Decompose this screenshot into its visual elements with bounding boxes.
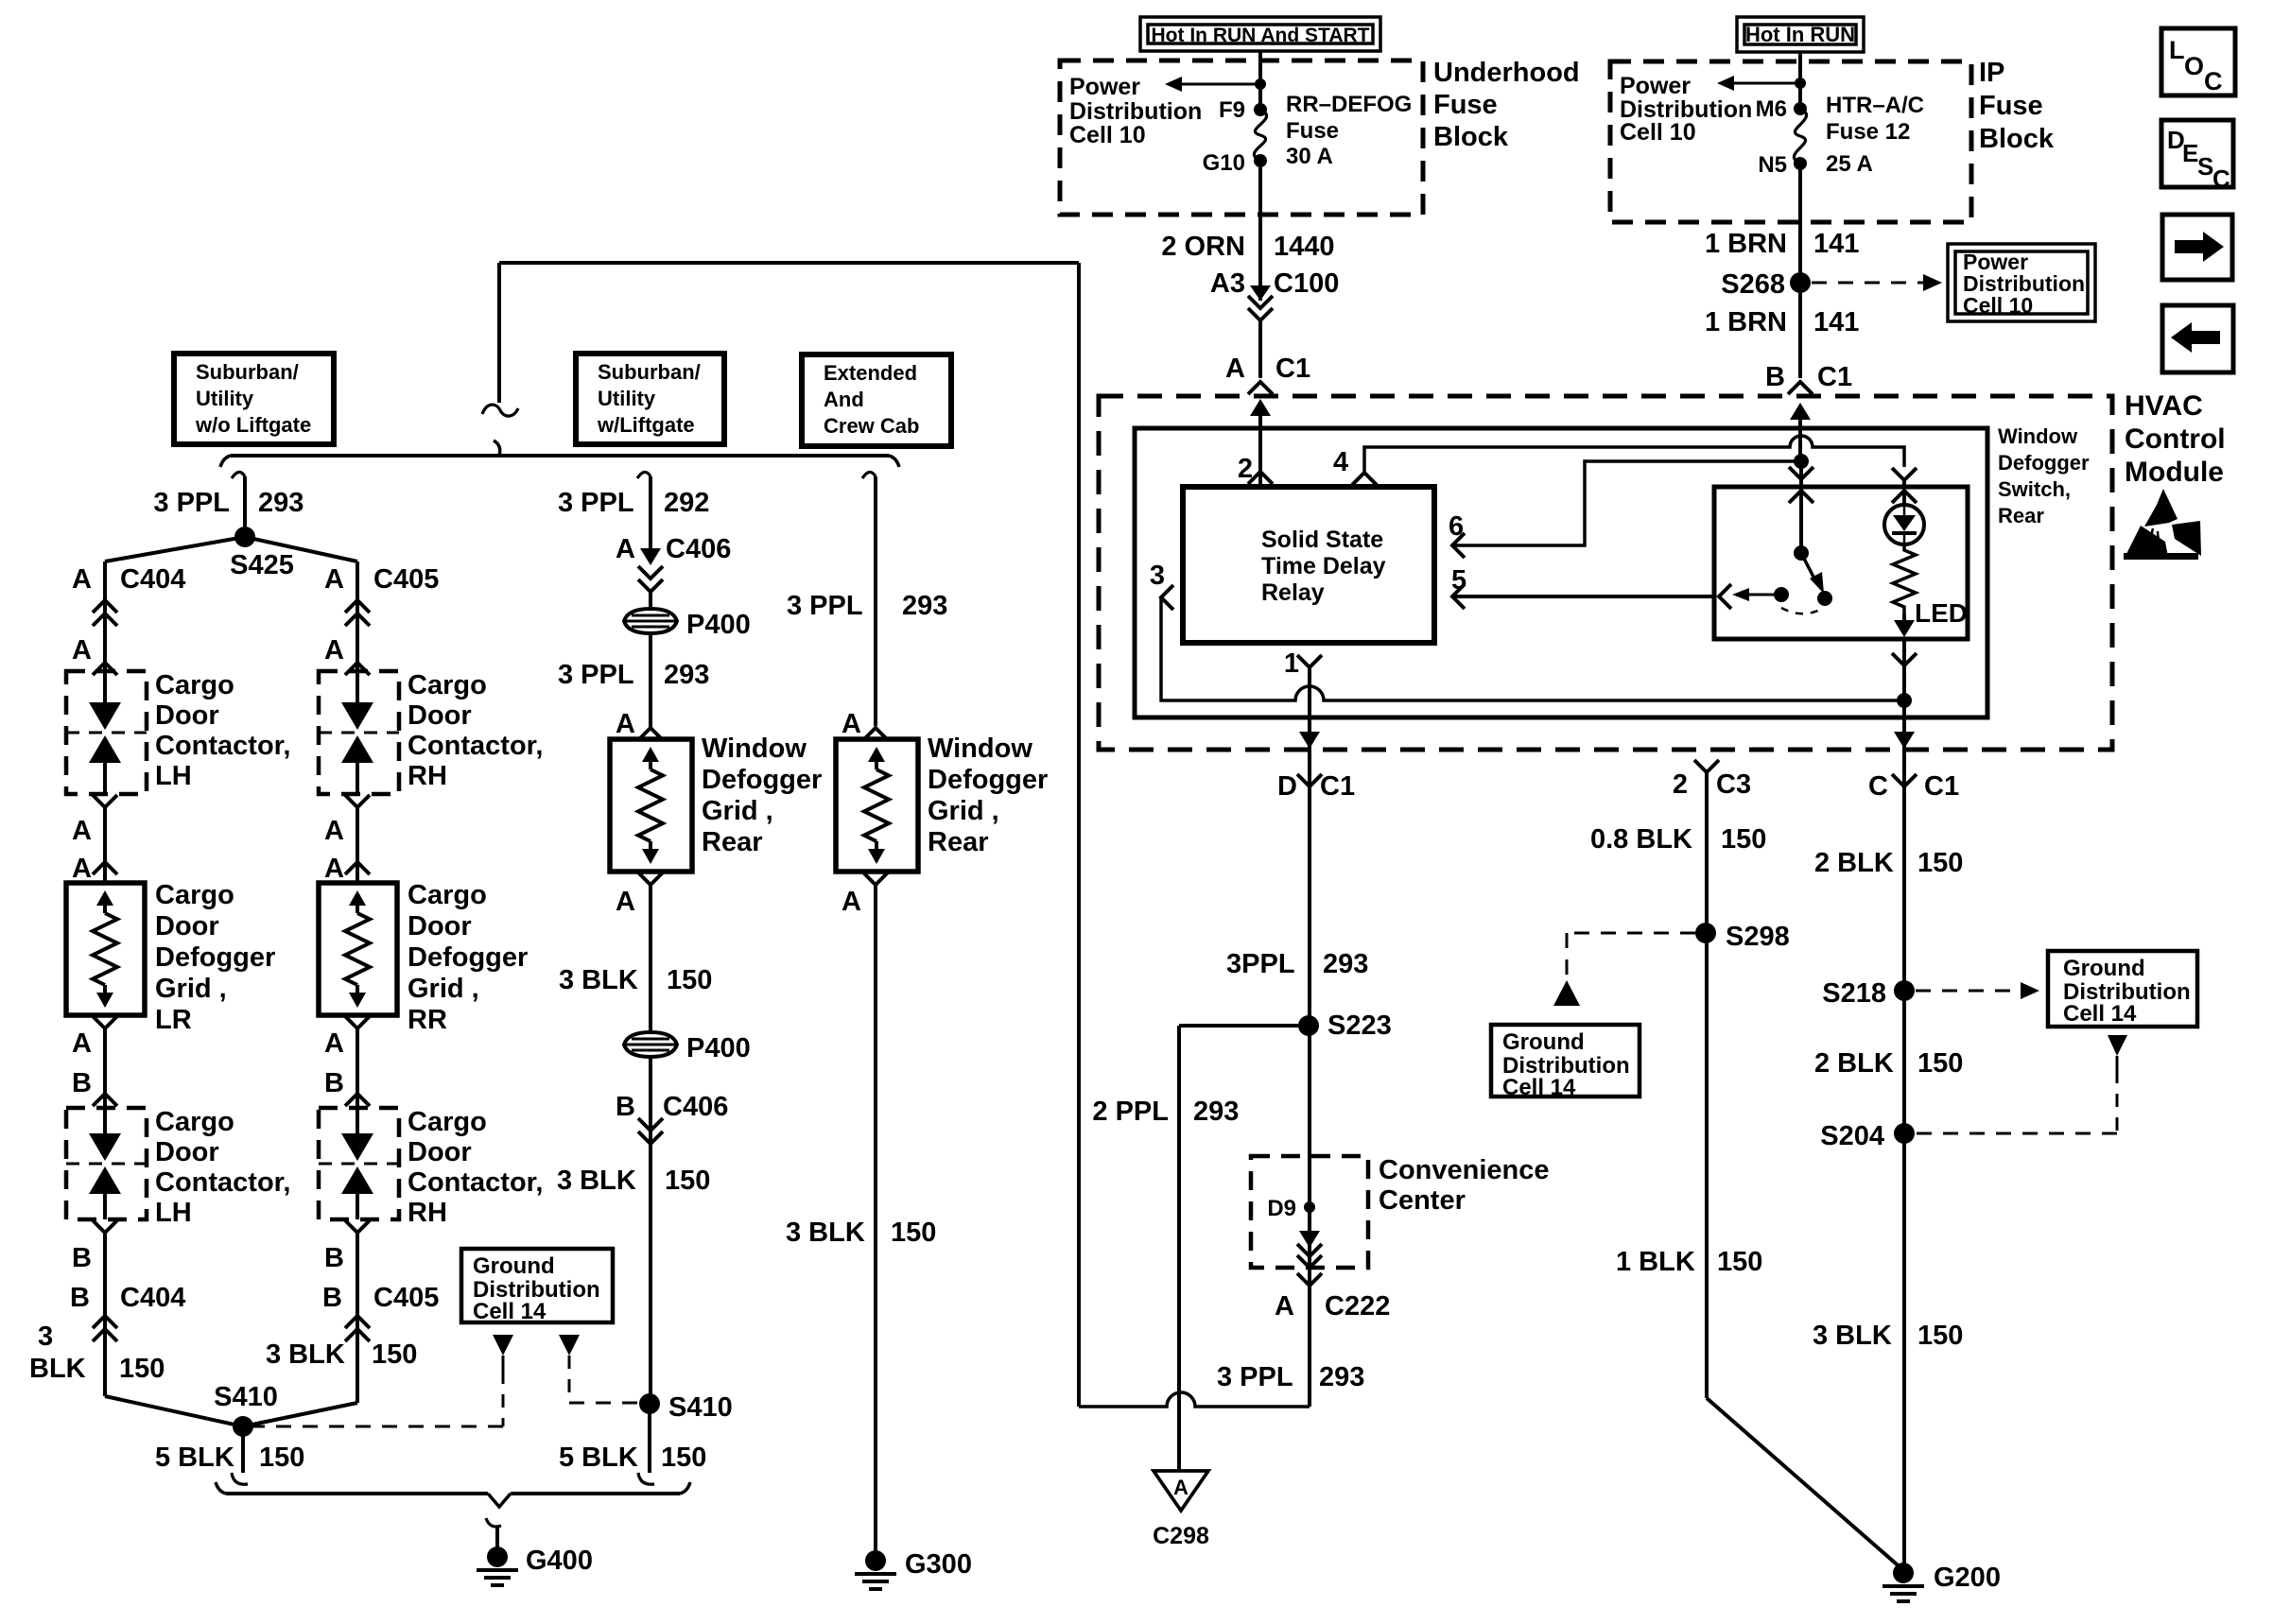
svg-text:E: E — [2182, 139, 2198, 167]
svg-text:A: A — [72, 854, 92, 884]
svg-text:Solid State: Solid State — [1261, 527, 1383, 553]
svg-text:RH: RH — [408, 1198, 447, 1228]
svg-text:A: A — [72, 1028, 92, 1059]
svg-text:A: A — [324, 1028, 344, 1059]
svg-text:Rear: Rear — [1998, 504, 2044, 527]
svg-text:3: 3 — [38, 1322, 53, 1352]
svg-text:3 BLK: 3 BLK — [559, 965, 638, 995]
svg-text:3 PPL: 3 PPL — [153, 488, 230, 518]
svg-text:Time Delay: Time Delay — [1261, 553, 1386, 579]
svg-text:C: C — [2204, 67, 2223, 95]
svg-text:150: 150 — [891, 1218, 936, 1248]
svg-text:C3: C3 — [1716, 769, 1751, 800]
svg-text:Defogger: Defogger — [408, 942, 528, 973]
svg-text:B: B — [1765, 362, 1785, 392]
svg-text:B: B — [72, 1243, 92, 1273]
svg-text:Window: Window — [928, 734, 1032, 764]
svg-text:Fuse: Fuse — [1286, 118, 1339, 144]
svg-text:C406: C406 — [666, 534, 731, 564]
svg-text:1440: 1440 — [1274, 232, 1335, 262]
svg-text:2 PPL: 2 PPL — [1092, 1097, 1169, 1127]
svg-text:G200: G200 — [1934, 1563, 2001, 1593]
svg-text:Power: Power — [1620, 73, 1691, 99]
svg-text:Cargo: Cargo — [408, 670, 487, 700]
svg-text:293: 293 — [1319, 1362, 1364, 1392]
svg-text:C405: C405 — [373, 1283, 439, 1313]
svg-text:P400: P400 — [686, 1033, 751, 1063]
svg-text:B: B — [322, 1283, 342, 1313]
svg-text:4: 4 — [1333, 447, 1348, 477]
svg-text:Extended: Extended — [824, 361, 917, 385]
svg-text:Hot In RUN: Hot In RUN — [1745, 23, 1855, 46]
svg-text:Power: Power — [1069, 74, 1140, 100]
svg-text:RH: RH — [408, 761, 447, 791]
svg-text:Window: Window — [1998, 424, 2078, 448]
svg-text:Door: Door — [408, 700, 472, 731]
svg-text:2: 2 — [1673, 769, 1688, 800]
svg-text:2 BLK: 2 BLK — [1814, 1048, 1894, 1079]
svg-text:Cargo: Cargo — [408, 1107, 487, 1137]
svg-text:5 BLK: 5 BLK — [155, 1443, 234, 1473]
svg-text:S218: S218 — [1822, 978, 1886, 1009]
svg-text:Underhood: Underhood — [1433, 58, 1580, 88]
svg-text:2 ORN: 2 ORN — [1161, 232, 1245, 262]
svg-text:3 PPL: 3 PPL — [1217, 1362, 1293, 1392]
svg-text:C100: C100 — [1274, 268, 1339, 299]
svg-text:Rear: Rear — [702, 827, 763, 857]
svg-text:C: C — [2212, 164, 2230, 193]
svg-text:LED: LED — [1915, 598, 1968, 628]
svg-text:LH: LH — [155, 761, 192, 791]
svg-text:C1: C1 — [1275, 354, 1310, 384]
svg-text:HTR–A/C: HTR–A/C — [1826, 93, 1924, 118]
svg-text:RR: RR — [408, 1005, 447, 1035]
svg-text:A: A — [324, 854, 344, 884]
svg-text:Defogger: Defogger — [928, 765, 1048, 795]
svg-text:S410: S410 — [214, 1382, 278, 1412]
svg-text:LR: LR — [155, 1005, 192, 1035]
svg-text:A: A — [842, 709, 861, 739]
svg-text:A: A — [72, 564, 92, 595]
svg-text:HVAC: HVAC — [2125, 390, 2203, 422]
svg-text:293: 293 — [902, 591, 947, 621]
svg-text:A: A — [324, 564, 344, 595]
svg-text:Contactor,: Contactor, — [155, 731, 290, 761]
svg-text:Defogger: Defogger — [155, 942, 275, 973]
svg-text:S204: S204 — [1820, 1121, 1884, 1151]
svg-text:LH: LH — [155, 1198, 192, 1228]
svg-text:3: 3 — [1150, 561, 1165, 591]
svg-text:w/o Liftgate: w/o Liftgate — [195, 413, 311, 437]
svg-text:C1: C1 — [1924, 771, 1959, 802]
svg-text:w/Liftgate: w/Liftgate — [597, 413, 695, 437]
svg-text:3 BLK: 3 BLK — [557, 1166, 636, 1196]
svg-text:RR–DEFOG: RR–DEFOG — [1286, 92, 1412, 117]
svg-text:Cell 14: Cell 14 — [1502, 1075, 1576, 1100]
svg-text:A: A — [1225, 354, 1245, 384]
svg-text:G400: G400 — [526, 1546, 593, 1576]
svg-text:Cell 10: Cell 10 — [1069, 122, 1146, 148]
svg-text:A: A — [324, 816, 344, 846]
svg-text:3 BLK: 3 BLK — [266, 1339, 345, 1370]
svg-text:C405: C405 — [373, 564, 439, 595]
svg-text:150: 150 — [1917, 1048, 1963, 1079]
svg-text:3 PPL: 3 PPL — [558, 488, 634, 518]
svg-text:Grid ,: Grid , — [408, 974, 479, 1004]
svg-text:S223: S223 — [1327, 1011, 1392, 1041]
svg-text:Grid ,: Grid , — [928, 796, 999, 826]
svg-text:Fuse: Fuse — [1979, 91, 2043, 121]
svg-text:Block: Block — [1433, 122, 1509, 152]
svg-text:S298: S298 — [1726, 922, 1790, 952]
svg-text:Ground: Ground — [2063, 956, 2145, 981]
svg-text:0.8 BLK: 0.8 BLK — [1590, 824, 1692, 855]
svg-text:5 BLK: 5 BLK — [559, 1443, 638, 1473]
svg-text:Crew Cab: Crew Cab — [824, 414, 919, 438]
svg-text:B: B — [324, 1068, 344, 1098]
svg-text:A: A — [324, 635, 344, 665]
svg-text:150: 150 — [667, 965, 712, 995]
svg-text:M6: M6 — [1756, 96, 1787, 122]
svg-text:150: 150 — [1917, 848, 1963, 878]
svg-text:A: A — [616, 887, 635, 917]
svg-text:Cell 10: Cell 10 — [1620, 119, 1696, 146]
svg-text:Module: Module — [2125, 457, 2224, 488]
svg-text:S410: S410 — [668, 1392, 733, 1423]
svg-text:3 PPL: 3 PPL — [787, 591, 863, 621]
svg-text:Switch,: Switch, — [1998, 477, 2071, 501]
svg-text:C404: C404 — [120, 1283, 185, 1313]
svg-text:B: B — [72, 1068, 92, 1098]
svg-text:Grid ,: Grid , — [155, 974, 227, 1004]
svg-text:G300: G300 — [905, 1549, 972, 1580]
svg-text:A: A — [72, 816, 92, 846]
svg-text:C298: C298 — [1153, 1523, 1209, 1549]
svg-text:And: And — [824, 388, 864, 411]
svg-text:A: A — [842, 887, 861, 917]
svg-text:Block: Block — [1979, 124, 2055, 154]
svg-text:A: A — [616, 534, 635, 564]
svg-text:C1: C1 — [1817, 362, 1852, 392]
svg-text:150: 150 — [1721, 824, 1766, 855]
svg-text:Ground: Ground — [1502, 1029, 1585, 1055]
svg-text:293: 293 — [1323, 949, 1368, 979]
svg-text:Rear: Rear — [928, 827, 989, 857]
svg-text:Cell 14: Cell 14 — [2063, 1001, 2137, 1027]
svg-text:Cargo: Cargo — [155, 1107, 234, 1137]
svg-text:150: 150 — [665, 1166, 710, 1196]
svg-text:141: 141 — [1813, 229, 1859, 259]
svg-text:Suburban/: Suburban/ — [196, 360, 299, 384]
svg-text:A: A — [616, 709, 635, 739]
svg-text:S425: S425 — [230, 550, 294, 580]
svg-text:B: B — [616, 1092, 635, 1122]
svg-text:Door: Door — [408, 1137, 472, 1167]
svg-text:Utility: Utility — [196, 387, 254, 410]
svg-text:Contactor,: Contactor, — [155, 1167, 290, 1198]
svg-text:A: A — [1275, 1291, 1294, 1322]
svg-text:150: 150 — [1917, 1321, 1963, 1351]
svg-text:Fuse: Fuse — [1433, 90, 1498, 120]
svg-text:3PPL: 3PPL — [1226, 949, 1295, 979]
svg-text:141: 141 — [1813, 307, 1859, 337]
svg-text:Convenience: Convenience — [1379, 1155, 1550, 1185]
svg-text:293: 293 — [664, 660, 709, 690]
svg-text:150: 150 — [1717, 1247, 1762, 1277]
svg-text:C404: C404 — [120, 564, 185, 595]
svg-text:1 BRN: 1 BRN — [1705, 307, 1787, 337]
svg-text:Contactor,: Contactor, — [408, 731, 543, 761]
svg-text:292: 292 — [664, 488, 709, 518]
svg-text:G10: G10 — [1203, 150, 1245, 176]
svg-text:1 BLK: 1 BLK — [1616, 1247, 1695, 1277]
svg-text:Grid ,: Grid , — [702, 796, 773, 826]
svg-text:3 BLK: 3 BLK — [786, 1218, 865, 1248]
svg-text:B: B — [324, 1243, 344, 1273]
svg-text:N5: N5 — [1758, 152, 1787, 178]
svg-text:C222: C222 — [1325, 1291, 1390, 1322]
svg-text:150: 150 — [119, 1354, 165, 1384]
svg-text:Cargo: Cargo — [155, 880, 234, 910]
svg-text:BLK: BLK — [29, 1354, 86, 1384]
svg-text:Control: Control — [2125, 423, 2226, 455]
svg-text:O: O — [2184, 52, 2204, 80]
svg-text:Cell 10: Cell 10 — [1963, 293, 2033, 318]
svg-text:L: L — [2169, 36, 2185, 64]
svg-text:Defogger: Defogger — [702, 765, 822, 795]
svg-text:1: 1 — [1284, 648, 1299, 679]
svg-text:A: A — [72, 635, 92, 665]
svg-text:2 BLK: 2 BLK — [1814, 848, 1894, 878]
svg-text:Utility: Utility — [598, 387, 656, 410]
svg-text:Center: Center — [1379, 1185, 1466, 1216]
svg-text:D: D — [1277, 771, 1297, 802]
svg-text:150: 150 — [661, 1443, 706, 1473]
svg-text:P400: P400 — [686, 610, 751, 640]
svg-text:A: A — [1173, 1476, 1189, 1499]
svg-text:293: 293 — [1193, 1097, 1239, 1127]
svg-text:Ground: Ground — [473, 1253, 555, 1279]
svg-text:S268: S268 — [1721, 269, 1785, 300]
svg-text:C: C — [1868, 771, 1888, 802]
svg-text:Door: Door — [155, 911, 219, 942]
svg-text:30 A: 30 A — [1286, 144, 1333, 169]
svg-text:Door: Door — [155, 700, 219, 731]
svg-text:293: 293 — [258, 488, 304, 518]
svg-text:C406: C406 — [663, 1092, 728, 1122]
svg-text:Cargo: Cargo — [408, 880, 487, 910]
svg-text:25 A: 25 A — [1826, 151, 1873, 177]
svg-text:Window: Window — [702, 734, 807, 764]
svg-text:Defogger: Defogger — [1998, 451, 2090, 475]
svg-text:C1: C1 — [1320, 771, 1355, 802]
svg-text:Relay: Relay — [1261, 579, 1325, 606]
svg-text:Suburban/: Suburban/ — [598, 360, 701, 384]
svg-text:D9: D9 — [1267, 1196, 1296, 1221]
svg-text:Cargo: Cargo — [155, 670, 234, 700]
svg-text:3 PPL: 3 PPL — [558, 660, 634, 690]
svg-text:F9: F9 — [1219, 97, 1245, 123]
svg-text:Fuse 12: Fuse 12 — [1826, 119, 1910, 145]
svg-text:Hot In RUN And START: Hot In RUN And START — [1152, 25, 1370, 46]
svg-text:B: B — [70, 1283, 90, 1313]
svg-text:Cell 14: Cell 14 — [473, 1299, 547, 1324]
svg-text:3 BLK: 3 BLK — [1813, 1321, 1892, 1351]
svg-text:150: 150 — [259, 1443, 304, 1473]
svg-text:IP: IP — [1979, 58, 2004, 88]
svg-text:1 BRN: 1 BRN — [1705, 229, 1787, 259]
svg-text:A3: A3 — [1210, 268, 1245, 299]
svg-text:Distribution: Distribution — [1069, 98, 1202, 125]
svg-text:S: S — [2197, 152, 2213, 181]
svg-text:Door: Door — [155, 1137, 219, 1167]
svg-text:150: 150 — [372, 1339, 417, 1370]
svg-text:Contactor,: Contactor, — [408, 1167, 543, 1198]
svg-text:Door: Door — [408, 911, 472, 942]
